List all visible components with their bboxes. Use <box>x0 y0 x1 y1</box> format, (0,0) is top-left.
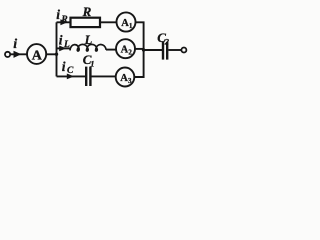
svg-text:i: i <box>56 7 60 22</box>
svg-text:L: L <box>63 40 70 50</box>
svg-text:2: 2 <box>128 49 132 57</box>
svg-text:C: C <box>67 66 74 76</box>
svg-text:L: L <box>84 33 93 47</box>
svg-text:i: i <box>13 37 17 52</box>
svg-text:2: 2 <box>164 36 170 46</box>
svg-text:A: A <box>120 73 128 84</box>
svg-text:R: R <box>82 4 92 19</box>
svg-text:i: i <box>59 33 63 48</box>
svg-text:A: A <box>121 45 129 56</box>
svg-text:R: R <box>60 15 67 25</box>
svg-text:A: A <box>32 48 43 63</box>
svg-text:1: 1 <box>129 22 133 30</box>
svg-text:1: 1 <box>90 59 94 69</box>
svg-text:i: i <box>62 59 66 74</box>
svg-text:3: 3 <box>128 77 132 85</box>
